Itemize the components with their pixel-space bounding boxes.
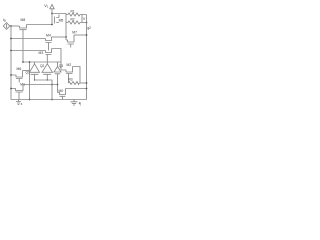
svg-text:M8: M8 [21,18,26,22]
transistor M0 (bottom right) [58,89,66,100]
svg-text:R3: R3 [69,78,73,82]
wire top rail y24.5 [27,24,53,26]
node dot tail [51,99,53,101]
node dot rail row2 [10,50,12,52]
node dot Q3 bottom [57,84,59,86]
svg-text:4j: 4j [79,102,82,106]
node dot output [86,22,88,24]
node dot x66 [65,36,67,38]
diode Q3 [54,62,61,93]
wire IB to M8 source [10,25,20,27]
wire branch x29.5 [29,62,31,100]
node dot branch top [29,61,31,63]
wire M6 drain [23,70,30,72]
wire M7 drain to rail [74,34,87,36]
wire top supply rail to resistors [52,14,66,15]
wire resistor left bracket [66,15,68,23]
current source IB (diamond) [3,23,9,30]
wire M3 drain to node B [52,49,62,71]
svg-text:V1: V1 [44,3,49,9]
svg-text:M0: M0 [59,89,64,93]
wire mirror net y84.5 [23,84,58,86]
wire M2 drain [73,67,81,84]
svg-text:Q3: Q3 [59,64,63,68]
node dot gate net left [22,61,24,63]
wire gate net y62 [23,61,61,63]
wire mirror row 1 [11,38,46,40]
supply VDD triangle [50,5,54,9]
node dot branch bottom [29,99,31,101]
svg-text:M3: M3 [39,51,44,55]
wire right rail [86,15,88,100]
transistor M4 (mid row 1) [46,37,52,51]
wire VDD stem [51,9,53,25]
resistor R1 [68,13,80,16]
ground (right) [71,100,78,106]
resistor R2 [68,21,80,24]
wire M0 drain to rail [66,88,87,90]
node dot rail row1 [10,38,12,40]
node dot gate rail end [51,24,53,26]
svg-text:M6: M6 [17,67,22,71]
wire M4 drain rail [52,36,67,38]
node dot tail cross [51,84,53,86]
node dot rail M1 [10,88,12,90]
ground (left) [16,100,21,105]
node dot R3 rail [86,82,88,84]
transistor M7 (right upper) [66,35,74,48]
wire left bias rail [10,26,12,100]
svg-text:M2: M2 [67,63,72,67]
transistor M6 (bottom-left upper) [11,71,23,83]
diode Q1 [30,62,40,80]
wire ground rail [11,99,87,101]
svg-text:IB: IB [3,18,6,23]
svg-text:R2: R2 [71,17,75,21]
wire tail y80 [35,80,53,100]
diode Q2 [42,64,53,80]
node dot M0 drain [86,88,88,90]
transistor M2 (right mid) [61,67,73,84]
svg-text:R1: R1 [71,10,75,14]
svg-text:6: 6 [21,102,23,106]
wire R3 to rail [79,82,86,84]
wire to output rail [82,15,87,23]
transistor M8 (top-left PMOS) [20,25,27,63]
svg-text:M5: M5 [59,18,64,22]
svg-text:M7: M7 [72,30,77,34]
node dot M7 drain [86,34,88,36]
node dot left rail top [10,25,12,27]
wire resistor right bracket [80,15,82,23]
svg-text:g2: g2 [87,26,91,30]
svg-text:M4: M4 [46,33,51,37]
wire mirror drop x66 [65,23,67,41]
transistor M1 (bottom-left lower) [11,85,23,100]
node dot VDD stem [51,13,53,15]
wire mirror row 2 [11,50,46,52]
transistor M5 (top-right) [55,15,59,24]
resistor R3 [69,82,80,85]
node dot rail M6 [10,74,12,76]
svg-text:V: V [83,17,86,21]
svg-text:Q2: Q2 [40,64,44,68]
transistor M3 (mid row 2) [46,49,52,64]
